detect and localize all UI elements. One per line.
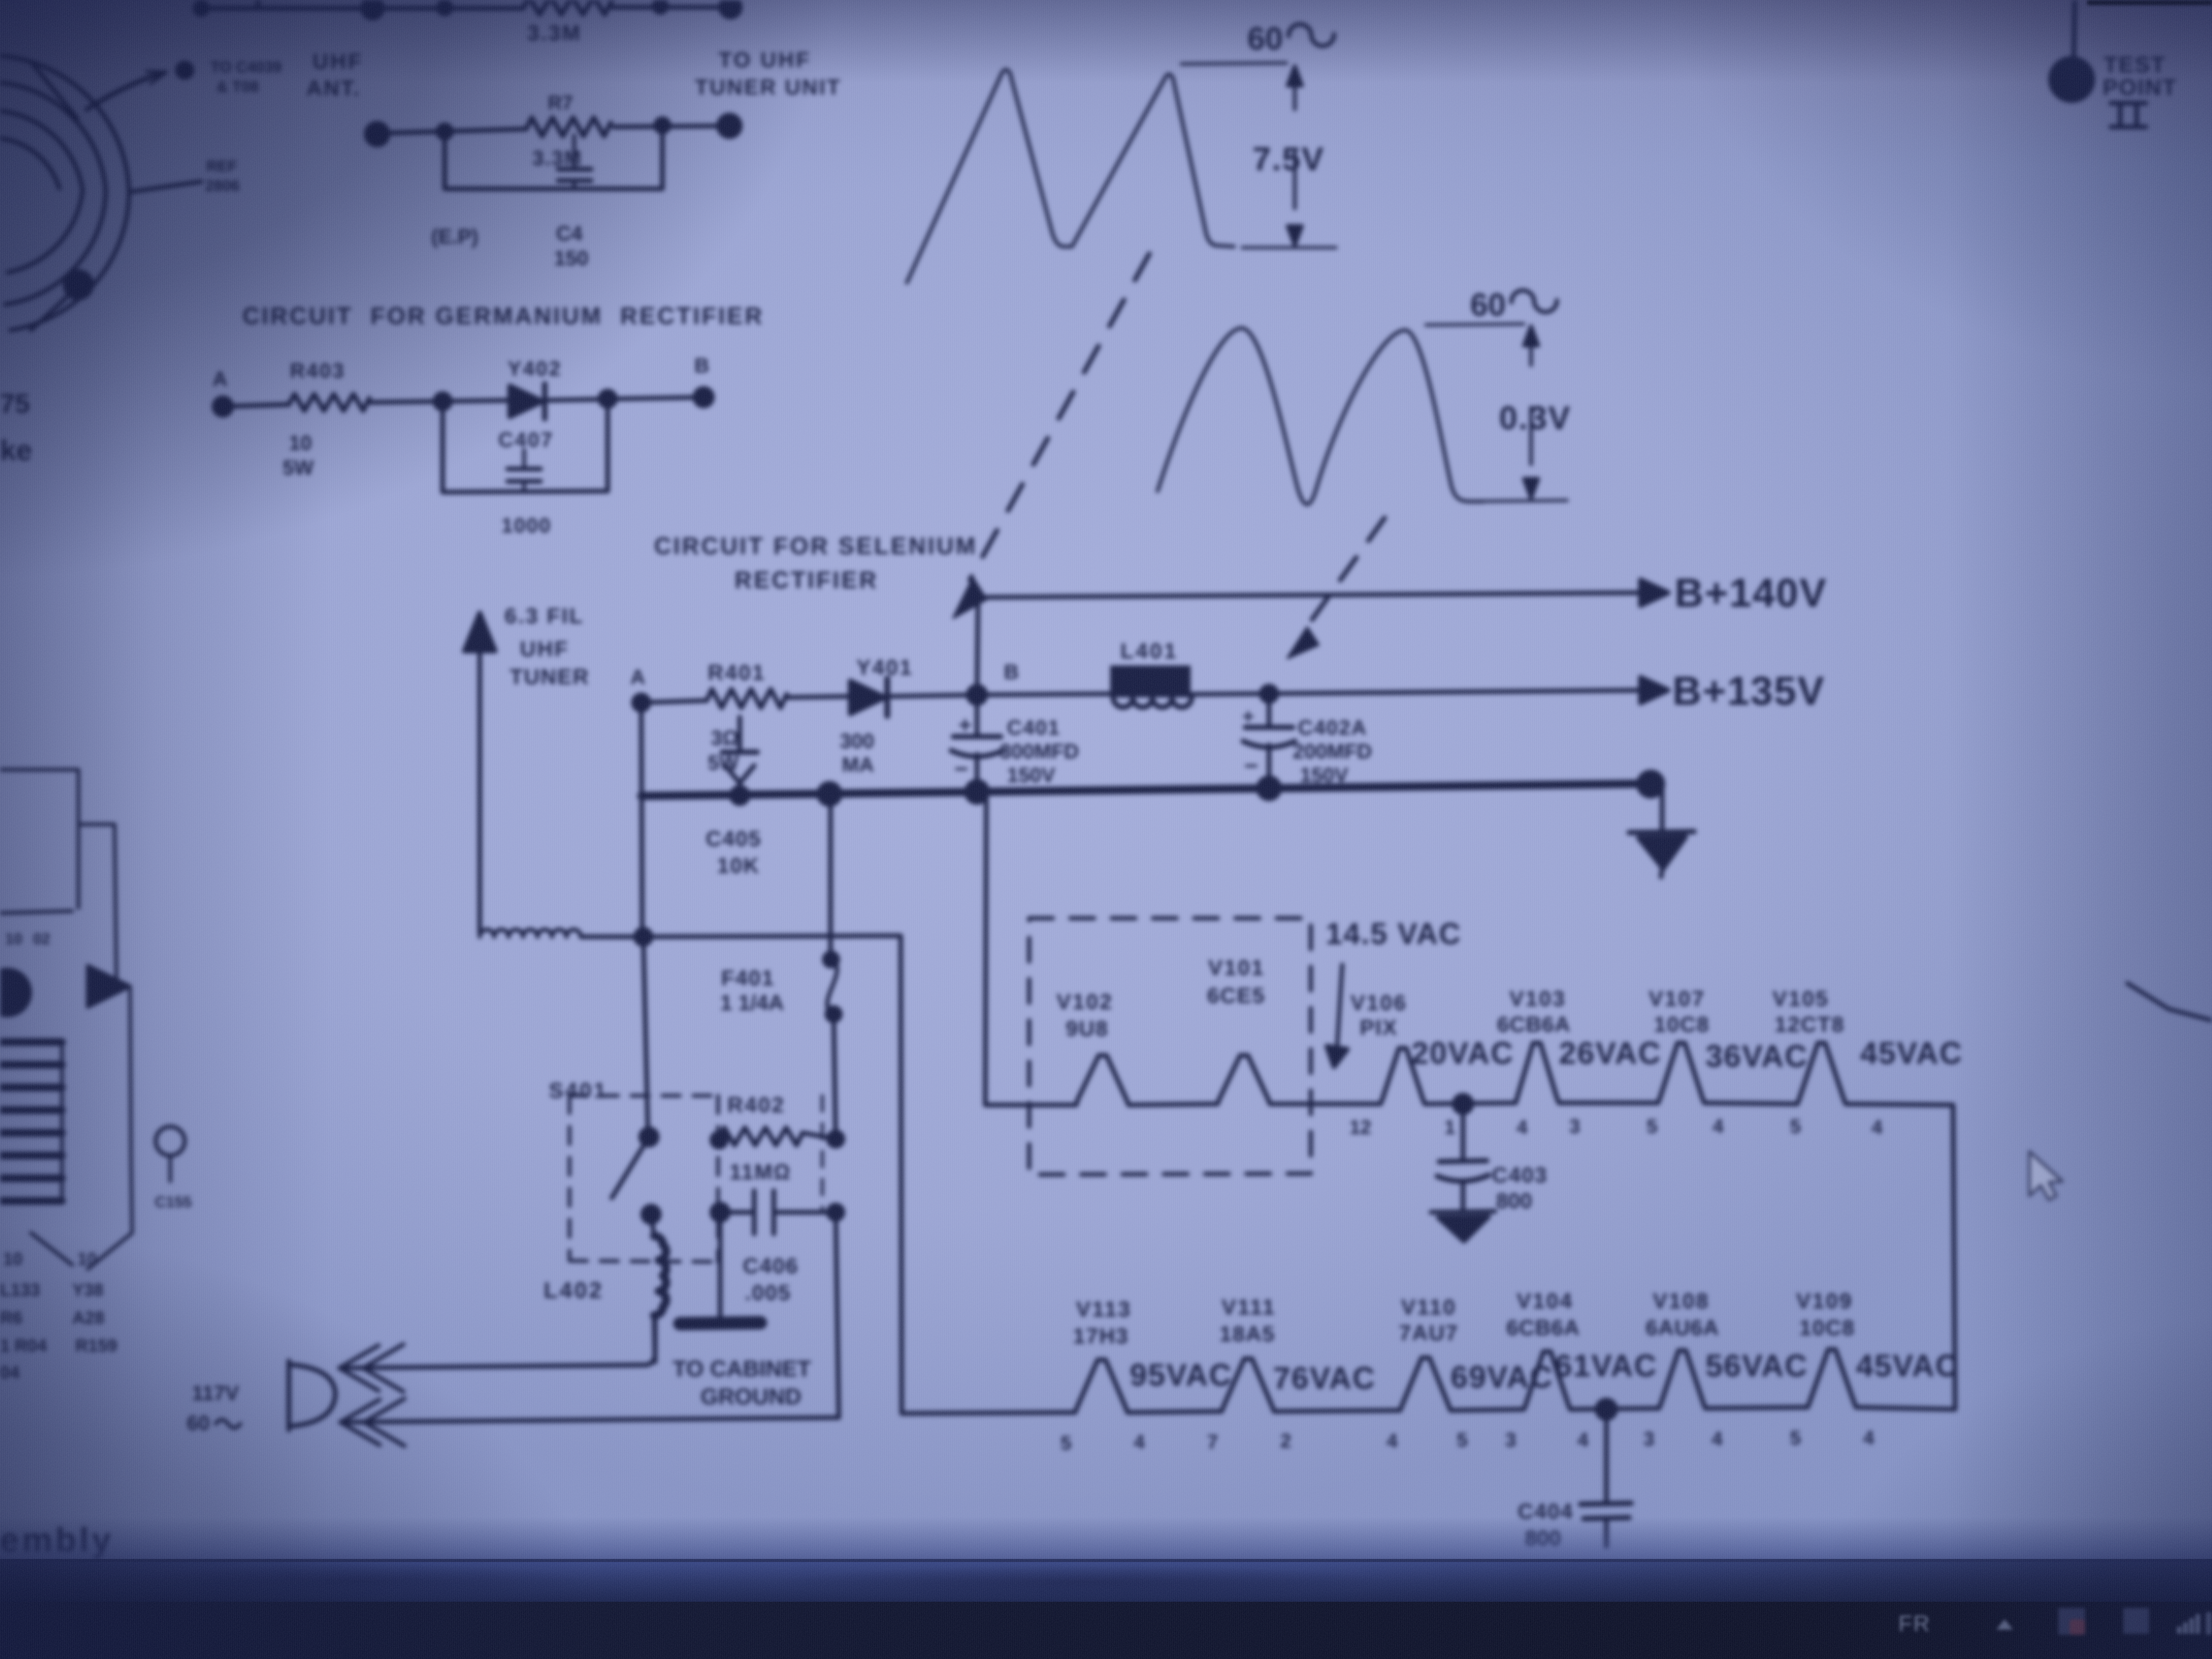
svg-text:3: 3 (1569, 1116, 1580, 1137)
wire: upper row end to lower row (1846, 1104, 1955, 1409)
heater V109 10C8 (1790, 1289, 1874, 1449)
svg-text:5W: 5W (283, 457, 314, 479)
svg-text:TUNER UNIT: TUNER UNIT (695, 75, 841, 99)
svg-text:B: B (694, 354, 709, 377)
net 45VAC (upper) (1860, 1036, 1963, 1070)
AC plug 117V 60Hz (187, 1344, 404, 1446)
net 6.3 FIL UHF TUNER (arrow up) (464, 604, 590, 933)
svg-text:76VAC: 76VAC (1273, 1361, 1376, 1395)
svg-text:V102: V102 (1056, 989, 1113, 1014)
svg-text:7AU7: 7AU7 (1399, 1321, 1458, 1345)
capacitor C405 10K (feedthrough) (706, 717, 761, 877)
svg-text:6CE5: 6CE5 (1207, 983, 1265, 1007)
output B+140V (1640, 570, 1827, 615)
svg-text:4: 4 (1713, 1116, 1723, 1137)
svg-text:UHF: UHF (520, 637, 569, 661)
svg-text:R401: R401 (708, 660, 766, 685)
svg-text:−: − (1244, 752, 1258, 779)
svg-text:V107: V107 (1649, 986, 1705, 1011)
resistor R403 10 5W (283, 360, 369, 479)
node A (selenium) (630, 666, 649, 710)
svg-text:4: 4 (1863, 1427, 1874, 1449)
svg-text:GROUND: GROUND (701, 1384, 802, 1409)
inductor L401 (977, 639, 1192, 707)
heater V104 6CB6A (1505, 1289, 1588, 1451)
fuse F401 1 1/4A (720, 794, 840, 1139)
label: REF 2806 (205, 158, 240, 194)
svg-text:2806: 2806 (205, 177, 240, 194)
label: 75 (choke, cut off) (0, 389, 32, 466)
heater V108 6AU6A (1644, 1289, 1722, 1450)
svg-text:& T08: & T08 (217, 78, 259, 95)
svg-text:12CT8: 12CT8 (1775, 1012, 1845, 1036)
wire: top bus row (195, 0, 740, 18)
capacitor C401 300MFD 150V (951, 695, 1079, 792)
svg-text:C402A: C402A (1298, 717, 1368, 739)
wire R401 to Y401 (787, 696, 849, 697)
wire: Y402 bypass loop (443, 399, 608, 492)
waveform 7.5V ripple (907, 21, 1336, 283)
svg-text:5: 5 (1790, 1116, 1801, 1137)
bottom screen-edge gradient band (0, 1517, 2212, 1584)
svg-text:(E.P): (E.P) (431, 225, 478, 248)
svg-text:F401: F401 (721, 966, 775, 990)
wire: y1814 run to right vertical (643, 936, 902, 1413)
node A (germanium) (213, 368, 232, 415)
svg-text:26VAC: 26VAC (1559, 1036, 1662, 1070)
heater V106 PIX (1349, 990, 1455, 1138)
label: assembly (cut) (0, 1521, 114, 1559)
svg-text:45VAC: 45VAC (1860, 1036, 1963, 1070)
wire (1129, 1104, 1217, 1105)
svg-text:.005: .005 (745, 1280, 791, 1305)
wire + junction (1570, 1400, 1659, 1419)
svg-text:4: 4 (1577, 1429, 1588, 1451)
diode Y402 (508, 357, 562, 419)
heater V105 12CT8 (1772, 986, 1882, 1138)
svg-text:A: A (630, 666, 645, 689)
net 61VAC (1555, 1348, 1657, 1383)
svg-text:TO CABINET: TO CABINET (673, 1356, 811, 1381)
wire: B+140V feed line (977, 593, 1642, 695)
wire (1274, 1410, 1400, 1411)
net 76VAC (1273, 1361, 1376, 1395)
svg-text:150V: 150V (1300, 764, 1348, 787)
wire (1705, 1407, 1808, 1408)
ground (right of bus) (1629, 784, 1694, 877)
svg-text:1 R04: 1 R04 (0, 1336, 47, 1356)
net 20VAC (1411, 1036, 1514, 1070)
svg-text:300MFD: 300MFD (1000, 740, 1079, 763)
svg-text:4: 4 (1517, 1117, 1527, 1138)
svg-text:Y38: Y38 (72, 1280, 104, 1300)
svg-text:02: 02 (33, 931, 50, 948)
svg-text:V110: V110 (1401, 1295, 1457, 1319)
svg-text:MA: MA (842, 754, 874, 776)
capacitor C407 1000 (498, 429, 554, 537)
svg-text:75: 75 (0, 389, 30, 419)
svg-text:V108: V108 (1653, 1289, 1710, 1313)
net 95VAC (1130, 1358, 1232, 1392)
node B (selenium) (968, 661, 1019, 704)
left assembly fragment (cut off at edge) (0, 770, 192, 1269)
svg-text:200MFD: 200MFD (1293, 740, 1372, 763)
label: TO C4039 & T08 (210, 59, 282, 95)
svg-text:95VAC: 95VAC (1130, 1358, 1232, 1392)
net 26VAC (1559, 1036, 1662, 1070)
enclosure (dashed) V102 V101 (1029, 918, 1311, 1175)
capacitor C404 800 (1518, 1409, 1631, 1550)
svg-text:0.3V: 0.3V (1499, 399, 1571, 436)
svg-text:R402: R402 (727, 1093, 785, 1117)
inductor (filament choke) (480, 930, 643, 937)
svg-text:4: 4 (1712, 1428, 1722, 1450)
chassis ground TO CABINET GROUND (673, 1212, 811, 1409)
svg-text:6CB6A: 6CB6A (1506, 1315, 1580, 1340)
svg-text:5W: 5W (708, 752, 739, 774)
svg-text:60: 60 (1247, 21, 1283, 57)
svg-text:L401: L401 (1120, 639, 1178, 663)
svg-text:C155: C155 (155, 1194, 192, 1211)
svg-text:+: + (1242, 705, 1254, 728)
resistor R402 11M (712, 1093, 843, 1212)
svg-text:POINT: POINT (2103, 75, 2177, 100)
svg-text:36VAC: 36VAC (1705, 1039, 1808, 1074)
svg-text:TO C4039: TO C4039 (210, 59, 282, 76)
svg-text:2: 2 (1280, 1430, 1291, 1452)
wire + junction (1425, 1095, 1516, 1113)
svg-text:−: − (954, 755, 968, 782)
svg-text:4: 4 (1134, 1432, 1145, 1453)
svg-text:45VAC: 45VAC (1856, 1348, 1959, 1383)
svg-text:10C8: 10C8 (1654, 1012, 1710, 1036)
capacitor C4 150 (E.P) (431, 135, 591, 270)
svg-text:10: 10 (3, 1249, 23, 1269)
svg-text:REF: REF (206, 158, 237, 175)
svg-text:10: 10 (289, 432, 312, 454)
wire (1704, 1103, 1797, 1104)
tube socket (partial circle, left edge) (0, 56, 201, 330)
net 69VAC (1451, 1360, 1553, 1394)
svg-text:R7: R7 (548, 92, 573, 114)
svg-text:3Ω: 3Ω (711, 727, 739, 750)
svg-text:3.3M: 3.3M (527, 21, 581, 45)
caption: CIRCUIT FOR GERMANIUM RECTIFIER (242, 302, 764, 329)
svg-text:6CB6A: 6CB6A (1497, 1012, 1571, 1036)
svg-text:V113: V113 (1076, 1297, 1132, 1321)
wire A to R401 (641, 701, 707, 703)
svg-text:V105: V105 (1772, 986, 1829, 1011)
svg-text:6AU6A: 6AU6A (1646, 1315, 1719, 1340)
svg-text:C405: C405 (706, 826, 761, 851)
svg-text:PIX: PIX (1360, 1015, 1398, 1039)
wire: dashed arrow to B+135V line (1288, 518, 1385, 658)
svg-text:C4: C4 (556, 222, 583, 245)
svg-text:11MΩ: 11MΩ (729, 1160, 791, 1184)
svg-text:56VAC: 56VAC (1705, 1348, 1808, 1383)
wire (1559, 1101, 1658, 1105)
svg-text:RECTIFIER: RECTIFIER (735, 566, 879, 593)
heater V111 18A5 (1207, 1295, 1291, 1453)
svg-text:V101: V101 (1208, 955, 1265, 980)
wire: dashed arrow to selenium circuit (953, 254, 1149, 618)
heater V101 6CE5 (1207, 955, 1270, 1104)
svg-text:61VAC: 61VAC (1555, 1348, 1657, 1383)
wire: lower heater baseline start (902, 1412, 1075, 1413)
test point II (2051, 0, 2177, 127)
svg-text:150: 150 (554, 247, 589, 270)
svg-text:3: 3 (1505, 1429, 1516, 1451)
svg-text:60: 60 (1470, 287, 1506, 323)
svg-text:TO UHF: TO UHF (719, 47, 811, 72)
svg-text:V111: V111 (1222, 1295, 1276, 1319)
svg-text:1: 1 (1444, 1117, 1455, 1138)
svg-text:5: 5 (1790, 1427, 1801, 1449)
svg-text:TEST: TEST (2104, 52, 2166, 77)
svg-text:9U8: 9U8 (1066, 1016, 1109, 1040)
svg-text:04: 04 (0, 1363, 20, 1382)
wire: R7 bypass loop (445, 125, 662, 189)
svg-text:800: 800 (1496, 1189, 1532, 1213)
heater V102 9U8 (1056, 989, 1129, 1105)
heater V113 17H3 (1061, 1297, 1145, 1454)
svg-text:CIRCUIT FOR GERMANIUM RECTIF: CIRCUIT FOR GERMANIUM RECTIFIER (242, 302, 764, 329)
diode Y401 (selenium rectifier) (840, 655, 913, 776)
waveform 0.3V ripple (1158, 287, 1571, 505)
wire (cut off, top right of heater area) (2127, 983, 2212, 1020)
svg-text:C407: C407 (498, 429, 554, 451)
svg-text:+: + (958, 712, 972, 738)
capacitor C406 .005 (712, 1191, 843, 1305)
svg-text:60: 60 (187, 1412, 210, 1435)
svg-text:C406: C406 (743, 1254, 799, 1278)
taskbar tray (1836, 1597, 2212, 1659)
svg-text:A: A (213, 368, 227, 391)
svg-text:TUNER: TUNER (510, 664, 590, 689)
node B (germanium) (694, 354, 709, 377)
wire R403 to diode (369, 394, 509, 409)
svg-text:R159: R159 (75, 1336, 117, 1356)
svg-text:V109: V109 (1796, 1289, 1853, 1313)
wire: lower row end (1856, 1407, 1955, 1409)
svg-text:20VAC: 20VAC (1411, 1036, 1514, 1070)
svg-text:V104: V104 (1517, 1289, 1573, 1313)
resistor R401 3ohm 5W (707, 660, 787, 774)
caption: CIRCUIT FOR SELENIUM RECTIFIER (654, 532, 978, 593)
net 14.5VAC with arrow (1326, 917, 1461, 1067)
svg-text:S401: S401 (549, 1078, 608, 1102)
svg-text:5: 5 (1457, 1429, 1468, 1451)
svg-text:7.5V: 7.5V (1253, 140, 1325, 177)
mouse cursor (2029, 1151, 2062, 1200)
svg-text:300: 300 (840, 730, 874, 753)
wire (1128, 1411, 1222, 1412)
svg-text:7: 7 (1207, 1432, 1218, 1453)
heater V110 7AU7 (1387, 1295, 1468, 1452)
wire (1451, 1409, 1524, 1410)
wire A to R403 (223, 404, 289, 406)
wire Y401 to node B (889, 695, 977, 696)
heater V107 10C8 (1647, 986, 1723, 1137)
svg-text:ke: ke (0, 434, 32, 466)
svg-text:B: B (1004, 661, 1019, 684)
svg-text:V103: V103 (1509, 986, 1566, 1011)
wire: R7 row (366, 115, 740, 145)
wire: A-line down to switch (643, 937, 648, 1131)
ground (below C403) (1431, 1211, 1495, 1241)
node UHF ANT (306, 49, 363, 100)
svg-text:1 1/4A: 1 1/4A (720, 990, 784, 1015)
svg-text:117V: 117V (192, 1382, 239, 1405)
resistor R7 3.3M (526, 92, 611, 170)
svg-text:L133: L133 (0, 1280, 40, 1300)
heater V103 6CB6A (1497, 986, 1580, 1138)
svg-text:A28: A28 (72, 1308, 104, 1328)
svg-text:CIRCUIT FOR SELENIUM: CIRCUIT FOR SELENIUM (654, 532, 978, 559)
svg-text:C401: C401 (1007, 717, 1061, 739)
resistor 3.3M (top row) (523, 0, 612, 45)
wire L401 to B+135V (1188, 686, 1642, 702)
svg-text:UHF: UHF (313, 49, 363, 73)
svg-text:4: 4 (1387, 1430, 1397, 1452)
svg-text:14.5 VAC: 14.5 VAC (1326, 917, 1461, 951)
svg-text:Y401: Y401 (856, 655, 913, 679)
wire: upper prong line to L402 (339, 1316, 655, 1368)
svg-text:10: 10 (77, 1249, 97, 1269)
svg-text:L402: L402 (544, 1278, 604, 1303)
capacitor C403 800 (1437, 1104, 1548, 1213)
svg-text:5: 5 (1061, 1433, 1071, 1454)
svg-text:B+135V: B+135V (1672, 668, 1825, 713)
wire: arrow from socket to label (87, 63, 192, 109)
net 36VAC (1705, 1039, 1808, 1074)
svg-text:10C8: 10C8 (1799, 1315, 1855, 1340)
capacitor C402A 200MFD 150V (1242, 694, 1372, 788)
svg-text:R6: R6 (0, 1308, 22, 1328)
switch S401 (interlock) (549, 1078, 718, 1262)
svg-text:3: 3 (1644, 1428, 1654, 1450)
svg-text:Y402: Y402 (508, 357, 562, 380)
left label column fragments (0, 1249, 117, 1382)
svg-text:18A5: 18A5 (1219, 1322, 1275, 1346)
svg-text:17H3: 17H3 (1073, 1324, 1129, 1348)
svg-text:10: 10 (5, 931, 22, 948)
wire: lower prong line to fuse branch (340, 1212, 839, 1422)
blurry window blobs in band (124, 1563, 588, 1599)
svg-text:V106: V106 (1351, 990, 1407, 1015)
svg-text:R403: R403 (290, 360, 346, 382)
svg-text:150V: 150V (1007, 764, 1055, 787)
node TO UHF TUNER UNIT (695, 47, 841, 99)
svg-text:ANT.: ANT. (306, 76, 361, 100)
svg-text:4: 4 (1872, 1117, 1882, 1138)
wire diode to B (546, 388, 712, 406)
svg-text:C403: C403 (1492, 1163, 1548, 1187)
wire (1270, 1102, 1380, 1107)
output B+135V (1640, 668, 1825, 713)
net 45VAC (lower) (1856, 1348, 1959, 1383)
inductor L402 (544, 1214, 666, 1362)
svg-text:1000: 1000 (501, 514, 551, 537)
svg-text:B+140V: B+140V (1674, 570, 1827, 615)
net 56VAC (1705, 1348, 1808, 1383)
svg-text:12: 12 (1349, 1117, 1371, 1138)
wire: A node down to filament feed (636, 703, 651, 945)
svg-text:5: 5 (1647, 1116, 1657, 1137)
wire: bus down to upper heater row (985, 794, 1076, 1105)
svg-text:6.3 FIL: 6.3 FIL (505, 604, 584, 628)
svg-text:10K: 10K (717, 853, 760, 877)
wire: ground bus (641, 774, 1661, 803)
